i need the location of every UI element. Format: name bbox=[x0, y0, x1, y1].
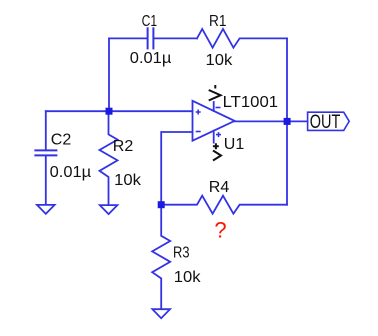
svg-text:10k: 10k bbox=[206, 52, 234, 69]
svg-text:10k: 10k bbox=[174, 269, 202, 286]
svg-text:0.01µ: 0.01µ bbox=[130, 50, 172, 67]
svg-text:R4: R4 bbox=[209, 179, 230, 196]
svg-text:10k: 10k bbox=[114, 172, 142, 189]
svg-text:R2: R2 bbox=[113, 138, 134, 155]
svg-text:OUT: OUT bbox=[310, 112, 341, 133]
svg-text:LT1001: LT1001 bbox=[223, 94, 279, 111]
svg-text:R3: R3 bbox=[173, 245, 190, 262]
svg-text:U1: U1 bbox=[224, 136, 245, 153]
svg-text:C2: C2 bbox=[51, 131, 72, 148]
svg-text:0.01µ: 0.01µ bbox=[50, 164, 91, 181]
svg-text:?: ? bbox=[214, 217, 226, 242]
svg-text:C1: C1 bbox=[142, 13, 158, 30]
svg-text:R1: R1 bbox=[209, 13, 227, 30]
